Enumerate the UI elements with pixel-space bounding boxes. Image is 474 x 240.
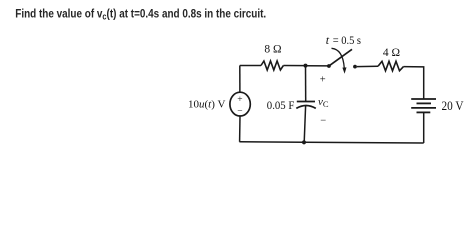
wire switch to R2 — [357, 65, 378, 67]
svg-text:+: + — [320, 74, 326, 85]
wire bottom rail — [239, 142, 423, 143]
svg-text:−: − — [320, 116, 326, 127]
wire node A to switch — [306, 65, 329, 67]
svg-text:−: − — [237, 107, 242, 117]
bottom junction dot — [302, 140, 306, 144]
svg-text:10u(t) V: 10u(t) V — [188, 99, 225, 111]
svg-text:4 Ω: 4 Ω — [383, 47, 400, 59]
wire capacitor branch top — [305, 66, 307, 102]
wire top-left segment — [240, 65, 261, 67]
capacitor C1 curved bottom plate — [296, 106, 316, 109]
wire right rail bottom — [423, 112, 425, 143]
wire R1 to node A — [283, 65, 305, 67]
resistor R2 4-ohm zigzag — [378, 61, 404, 71]
svg-text:0.05 F: 0.05 F — [267, 100, 295, 112]
wire capacitor branch bottom — [304, 106, 305, 142]
wire below source — [239, 116, 241, 142]
wire left rail top — [239, 66, 241, 93]
resistor R1 8-ohm zigzag — [261, 61, 283, 70]
node A junction dot (capacitor top node) — [304, 64, 308, 68]
svg-text:8 Ω: 8 Ω — [264, 44, 281, 56]
svg-text:= 0.5 s: = 0.5 s — [333, 33, 362, 47]
battery V2 plates — [411, 99, 436, 112]
wire R2 to top-right corner and down — [404, 67, 424, 99]
svg-text:t: t — [326, 33, 330, 47]
svg-text:+: + — [237, 95, 242, 105]
capacitor C1 top plate — [297, 101, 315, 103]
svg-text:20 V: 20 V — [442, 99, 464, 113]
svg-text:Find the value of vc(t) at t=0: Find the value of vc(t) at t=0.4s and 0.… — [15, 7, 266, 21]
switch S1 — [327, 48, 357, 74]
svg-text:vC: vC — [318, 96, 329, 109]
voltage source VS circle — [230, 92, 250, 116]
